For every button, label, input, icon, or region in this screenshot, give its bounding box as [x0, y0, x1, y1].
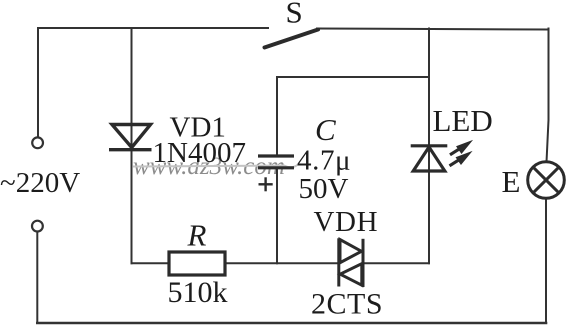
capacitor polarity plus — [259, 177, 273, 191]
LED light arrow 1 — [450, 141, 472, 155]
svg-text:50V: 50V — [299, 173, 349, 205]
wire: capacitor lower lead — [276, 169, 278, 263]
watermark www.dz3w.com — [133, 153, 298, 180]
wire: LED branch vertical — [428, 29, 430, 264]
wire: capacitor upper lead — [276, 77, 278, 155]
wire: capacitor top link horizontal — [277, 76, 429, 78]
wire: VD1 branch vertical — [131, 28, 133, 263]
wire: right rail lamp to bottom — [545, 198, 547, 323]
LED light arrow 2 — [450, 152, 472, 166]
resistor R body — [169, 252, 225, 275]
svg-text:C: C — [315, 112, 336, 147]
switch S blade — [265, 30, 319, 48]
wire: left lower vertical from terminal to bottom rail — [36, 232, 38, 323]
wire: right rail upper to lamp — [547, 29, 549, 163]
svg-text:E: E — [502, 164, 521, 199]
wire: top rail right of switch — [317, 29, 549, 30]
svg-text:4.7μ: 4.7μ — [297, 145, 351, 177]
capacitor C plates — [258, 156, 294, 168]
wire: resistor right lead to diac — [225, 262, 339, 264]
diac VDH — [339, 238, 363, 287]
wire: resistor left lead — [132, 262, 170, 264]
svg-text:S: S — [286, 0, 303, 30]
svg-text:VDH: VDH — [314, 206, 379, 238]
svg-text:LED: LED — [433, 103, 493, 138]
LED D1 — [411, 146, 448, 171]
terminal: lower input — [32, 221, 43, 232]
svg-text:R: R — [187, 218, 207, 253]
wire: left upper vertical to terminal — [37, 28, 39, 137]
svg-text:2CTS: 2CTS — [311, 288, 383, 321]
lamp E — [528, 162, 565, 199]
diode VD1 — [109, 125, 152, 150]
wire: top rail left of switch — [38, 27, 268, 29]
wire: bottom rail — [37, 322, 546, 325]
svg-text:~220V: ~220V — [0, 167, 80, 199]
terminal: upper input — [32, 137, 43, 148]
svg-text:510k: 510k — [168, 276, 228, 309]
wire: diac to LED branch corner — [363, 262, 429, 264]
